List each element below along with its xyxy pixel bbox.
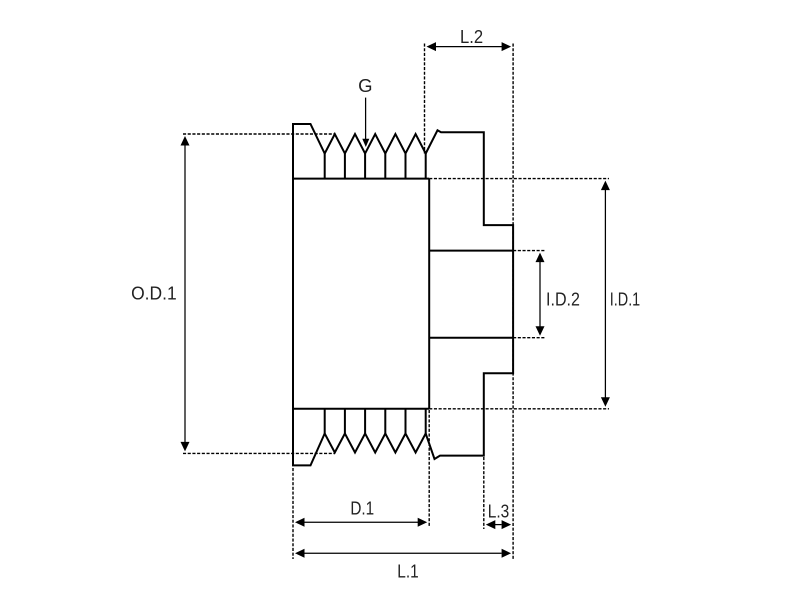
dimension O.D.1 line bbox=[184, 143, 186, 444]
svg-text:L.1: L.1 bbox=[397, 560, 418, 581]
dashed extension line I.D.1 top bbox=[429, 178, 609, 180]
pulley rim bottom edge bbox=[293, 408, 429, 410]
svg-text:L.3: L.3 bbox=[488, 501, 510, 522]
svg-text:L.2: L.2 bbox=[460, 26, 483, 47]
svg-text:I.D.2: I.D.2 bbox=[546, 288, 580, 309]
dashed extension line I.D.2 top bbox=[513, 250, 545, 252]
svg-text:I.D.1: I.D.1 bbox=[610, 288, 640, 309]
svg-text:G: G bbox=[358, 75, 372, 96]
hub bore top line I.D.2 bbox=[429, 250, 513, 252]
dashed extension line O.D.1 bottom bbox=[183, 452, 335, 454]
dimension D.1 line bbox=[302, 521, 420, 523]
bottom groove stems bbox=[325, 409, 426, 434]
dashed extension line left D.1/L.1 bbox=[292, 468, 294, 559]
pulley rim top edge bbox=[293, 178, 429, 180]
dashed extension line D.1 right bbox=[428, 410, 430, 527]
dashed extension line L.3 left bbox=[483, 457, 485, 529]
dashed extension line right L.2/L.3/L.1 bbox=[512, 44, 514, 560]
top groove stems bbox=[325, 154, 426, 179]
dimension L.2 line bbox=[434, 46, 505, 48]
dashed extension line I.D.2 bottom bbox=[513, 337, 545, 339]
dashed extension line I.D.1 bottom bbox=[429, 408, 609, 410]
svg-text:O.D.1: O.D.1 bbox=[131, 282, 177, 303]
dimension I.D.2 line bbox=[539, 260, 541, 329]
pulley outline with V-belt grooves bbox=[293, 124, 513, 465]
dimension L.1 line bbox=[302, 552, 502, 554]
hub bore bottom line I.D.2 bbox=[429, 337, 513, 339]
dimension I.D.1 line bbox=[604, 188, 606, 400]
dimension L.3 line bbox=[493, 524, 502, 526]
leader arrow G bbox=[365, 98, 367, 140]
dashed extension line O.D.1 top bbox=[183, 133, 335, 135]
dashed extension line L.2 left bbox=[424, 44, 426, 154]
pulley body right edge bbox=[428, 179, 430, 409]
svg-text:D.1: D.1 bbox=[350, 497, 374, 518]
